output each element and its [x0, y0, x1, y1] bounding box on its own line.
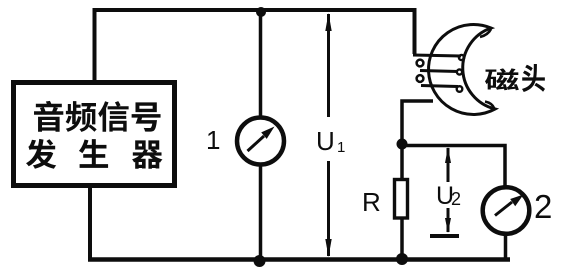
text: 磁	[485, 68, 519, 90]
wire: top rail from generator to head	[95, 10, 415, 82]
wire: generator bottom to bottom rail	[88, 186, 92, 260]
text: 号	[132, 102, 161, 131]
meter 1 needle	[248, 136, 265, 151]
coil left loop 1	[417, 60, 424, 67]
wire: bottom rail	[88, 257, 510, 262]
svg-text:1: 1	[206, 125, 220, 155]
node: junction resistor on bottom rail	[396, 253, 408, 265]
voltage arrow U2 upper arrowhead	[445, 147, 451, 163]
coil left loop 2	[417, 75, 424, 82]
text: 生	[79, 139, 108, 168]
wire: meter 2 bottom to bottom rail	[504, 236, 508, 259]
magnetic head coil bar 2	[420, 71, 458, 72]
magnetic head coil bar 1	[413, 55, 461, 56]
magnetic head top horn curl	[480, 29, 491, 37]
text: 头	[522, 64, 545, 92]
svg-text:2: 2	[451, 189, 461, 209]
wire: meter 1 branch upper	[259, 12, 263, 116]
text: 频	[66, 101, 97, 132]
voltage arrow U1 upper arrowhead	[325, 13, 331, 31]
coil right loop 3	[457, 86, 463, 92]
svg-text:1: 1	[337, 139, 345, 156]
coil right loop 1	[459, 55, 464, 60]
text: 发	[26, 139, 56, 169]
node: junction head/R/meter2	[397, 139, 408, 150]
wire: head bottom terminal to junction	[402, 101, 433, 142]
svg-text:2: 2	[534, 188, 552, 225]
voltage arrow U1 line lower	[327, 161, 330, 256]
node: junction of meter 1 branch on bottom rail	[254, 255, 266, 267]
text: 器	[132, 140, 162, 168]
wire: resistor bottom to bottom rail	[400, 218, 404, 259]
magnetic head coil bar 3	[421, 86, 458, 87]
resistor R body	[395, 180, 408, 219]
wire: junction to resistor top	[400, 144, 404, 180]
node: junction of meter 1 branch on top rail	[256, 7, 266, 17]
voltage arrow U2 lower arrowhead	[445, 218, 451, 233]
voltage arrow U2 line upper	[447, 148, 450, 182]
meter 1 body	[237, 118, 284, 165]
voltage arrow U2 line lower	[447, 208, 450, 232]
svg-text:R: R	[362, 187, 381, 217]
meter 2 body	[483, 187, 530, 234]
meter 2 needle	[495, 202, 512, 216]
voltage arrow U1 lower arrowhead	[325, 239, 331, 257]
svg-text:U: U	[316, 126, 335, 156]
magnetic head bottom horn curl	[485, 102, 494, 109]
wire: junction to meter 2 top	[402, 146, 505, 187]
text: 音	[34, 101, 63, 132]
magnetic head core (crescent)	[429, 24, 495, 114]
audio signal generator box	[14, 83, 175, 186]
wire: meter 1 branch lower	[259, 166, 263, 259]
U2 reference bar	[430, 234, 459, 238]
voltage arrow U1 line upper	[327, 14, 330, 117]
text: 信	[98, 101, 128, 132]
coil right loop 2	[457, 69, 462, 74]
